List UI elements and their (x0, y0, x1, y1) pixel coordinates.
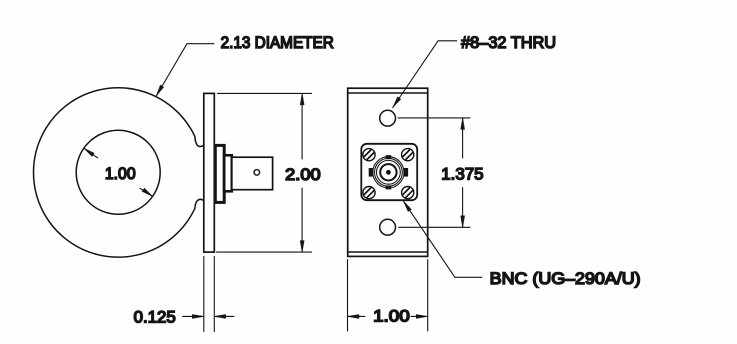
BNC flange (side view) (215, 145, 224, 202)
svg-text:2.00: 2.00 (285, 165, 320, 184)
dim 2.00 dimension line + arrows (300, 93, 304, 252)
leader #8-32 THRU (393, 41, 457, 108)
label BNC (UG-290A/U) (490, 269, 641, 288)
mounting plate (side view) (204, 93, 215, 252)
front view plate bottom edge line (348, 251, 428, 253)
front view plate top edge line (348, 92, 428, 94)
svg-text:2.13 DIAMETER: 2.13 DIAMETER (221, 33, 334, 52)
label #8-32 THRU (461, 33, 556, 52)
BNC center pin (side view) (254, 170, 260, 176)
dim 0.125 arrows (183, 315, 235, 319)
label 1.375 (441, 164, 483, 183)
svg-text:0.125: 0.125 (134, 308, 176, 327)
BNC bayonet lug north (386, 155, 392, 159)
leader 2.13 DIAMETER (156, 44, 214, 96)
dim 2.00 extension line bottom (217, 251, 312, 253)
flange screw top-left (363, 149, 375, 161)
dim 1.00 dimension line + arrows (348, 315, 428, 319)
dim 1.00 extension lines (front view width) (348, 260, 428, 332)
BNC bayonet lug south (386, 185, 392, 189)
svg-text:BNC (UG–290A/U): BNC (UG–290A/U) (490, 269, 641, 288)
svg-text:#8–32 THRU: #8–32 THRU (461, 33, 556, 52)
front view plate outer rect (with torus edges) (348, 88, 428, 256)
bottom mounting hole (380, 219, 396, 235)
label 0.125 (134, 308, 176, 327)
dim 1.375 dimension line + arrows (461, 118, 465, 227)
BNC barrel (side view) (232, 157, 273, 190)
label 2.13 DIAMETER (221, 33, 334, 52)
flange screw bottom-left (363, 187, 375, 199)
leader BNC (UG-290A/U) (403, 201, 482, 277)
flange screw bottom-right (402, 187, 414, 199)
torus outer outline (side view, cut at plate) (34, 88, 205, 257)
diameter dim 1.00 inner circle arrows (84, 148, 153, 196)
flange screw top-right (402, 149, 414, 161)
label 2.00 (285, 165, 320, 184)
dim 1.375 extension line bottom (399, 226, 470, 228)
BNC collar (side view) (224, 155, 232, 191)
svg-text:1.00: 1.00 (105, 164, 136, 183)
BNC flange square (front view) (361, 144, 417, 200)
svg-text:1.00: 1.00 (373, 307, 410, 326)
BNC bayonet lug east (403, 168, 408, 177)
BNC bayonet lug west (369, 168, 374, 177)
dim 1.375 extension line top (398, 117, 470, 119)
BNC connector rings (front view) (373, 157, 404, 188)
label 1.00 (plate width) (373, 307, 410, 326)
svg-text:1.375: 1.375 (441, 164, 483, 183)
top mounting hole (380, 110, 396, 126)
torus inner hole circle (76, 130, 160, 214)
dim 0.125 extension lines (204, 257, 215, 332)
dim 2.00 extension line top (218, 92, 312, 94)
label 1.00 (inner circle) (105, 164, 136, 183)
